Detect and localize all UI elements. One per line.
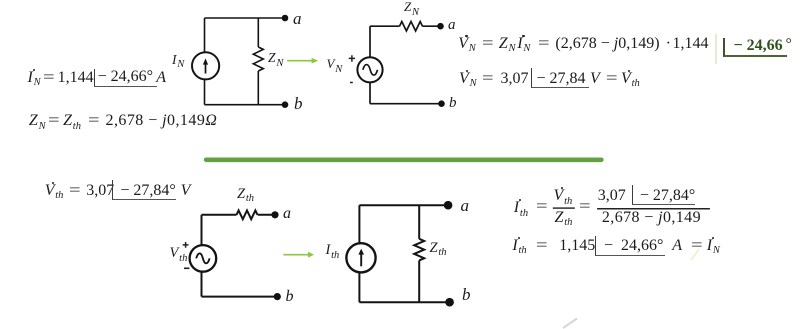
wire: circuit4 left	[358, 205, 360, 302]
node a (circuit3 terminal dot)	[271, 211, 278, 218]
node label a (circuit2)	[448, 18, 456, 33]
label Ith (circuit4)	[326, 243, 340, 258]
wire: circuit4 bottom	[359, 301, 449, 303]
label Zth (circuit4)	[430, 241, 447, 256]
wire: circuit1 right branch upper	[257, 18, 259, 47]
node label a (circuit3)	[283, 206, 291, 222]
node b (circuit3 terminal dot)	[274, 293, 281, 300]
equation TR1: VN = ZN IN = (2,678 - j0,149) * 1,144 angle -24,66 (green)	[458, 36, 476, 52]
equation TR2: VN = 3,07 angle -27,84 V = Vth	[459, 71, 477, 87]
wire: circuit2 top right to node a	[423, 25, 441, 27]
node label a (circuit4)	[461, 197, 470, 214]
resistor Zth (vertical zigzag, circuit4)	[414, 239, 424, 261]
decorative faint green tick	[715, 34, 717, 64]
equation TL1: IN = 1,144 angle -24,66 A	[28, 70, 41, 86]
node b (circuit2 terminal dot)	[438, 100, 445, 107]
label IN (circuit1)	[172, 53, 184, 68]
wire: circuit1 bottom	[205, 104, 286, 106]
wire: circuit3 left	[201, 215, 203, 297]
node b (circuit1 terminal dot)	[282, 101, 289, 108]
wire: circuit3 bottom	[202, 296, 278, 298]
arrow: green equivalence arrow top	[287, 58, 318, 64]
wire: circuit3 top	[202, 214, 237, 216]
node a (circuit4 terminal dot)	[444, 201, 453, 210]
node b (circuit4 terminal dot)	[445, 298, 454, 307]
equation BR2: Ith = 1,145 angle -24,66 A = IN	[512, 238, 526, 254]
wire: circuit4 right branch upper	[418, 205, 420, 239]
wire: circuit1 right branch lower	[257, 71, 259, 105]
fraction bar 2 (3,07.../2,678...)	[597, 208, 710, 210]
current source Ith (circuit4)	[346, 243, 375, 272]
equation BR1: Ith = Vth/Zth = 3,07 angle -27,84 / 2,678 - j0,149	[514, 200, 528, 216]
equation TL2: ZN = Zth = 2,678 - j0,149 ohm	[29, 113, 46, 129]
decorative faint diagonal mark	[563, 319, 577, 329]
resistor Zth (horizontal zigzag, circuit3)	[237, 210, 258, 219]
node label b (circuit4)	[462, 286, 471, 303]
node label b (circuit2)	[449, 96, 457, 111]
label Zth (circuit3)	[237, 187, 254, 202]
resistor ZN (horizontal zigzag, circuit2)	[400, 22, 423, 31]
equation BL: Vth = 3,07 angle -27,84 V	[45, 183, 64, 199]
decorative faint yellow slash	[691, 249, 699, 260]
wire: circuit1 top	[205, 17, 286, 19]
fraction bar 1 (Vth/Zth)	[553, 207, 575, 208]
label Vth (circuit3)	[170, 246, 188, 261]
polarity plus (circuit2)	[349, 55, 355, 62]
wire: circuit3 top right to node a	[258, 214, 275, 216]
polarity plus (circuit3)	[183, 242, 189, 248]
voltage source Vth (circuit3)	[190, 245, 217, 272]
arrow: green equivalence arrow bottom	[283, 252, 314, 258]
wire: circuit2 bottom	[370, 103, 442, 105]
divider: green horizontal rule	[206, 158, 601, 163]
voltage source VN (circuit2)	[357, 57, 382, 82]
wire: circuit4 top	[359, 204, 448, 206]
polarity minus (circuit3)	[184, 267, 189, 269]
label VN (circuit2)	[327, 57, 343, 72]
wire: circuit2 left	[369, 26, 371, 104]
node a (circuit1 terminal dot)	[282, 15, 289, 22]
label ZN (circuit1)	[268, 51, 283, 66]
polarity minus (circuit2)	[350, 82, 353, 84]
current source IN (circuit1)	[192, 52, 219, 79]
label ZN (circuit2)	[404, 0, 419, 15]
node label b (circuit3)	[286, 289, 294, 305]
node label a (circuit1)	[293, 10, 302, 27]
wire: circuit1 left	[204, 18, 206, 105]
resistor ZN (vertical zigzag, circuit1)	[253, 47, 263, 71]
node a (circuit2 terminal dot)	[437, 23, 444, 30]
wire: circuit2 top	[370, 25, 400, 27]
wire: circuit4 right branch lower	[418, 260, 420, 302]
node label b (circuit1)	[294, 95, 303, 112]
